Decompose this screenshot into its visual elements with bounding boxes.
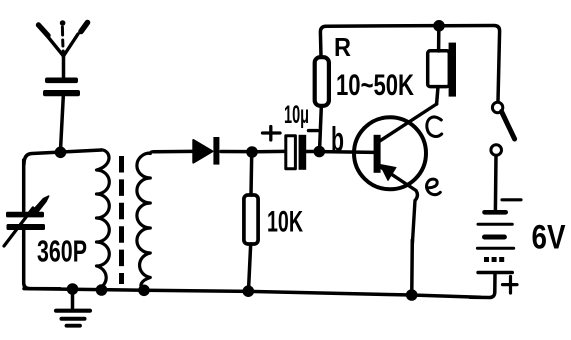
wire secondary top to diode — [154, 150, 193, 154]
svg-text:10K: 10K — [267, 206, 303, 239]
svg-text:6V: 6V — [532, 219, 566, 257]
wire tank left upper — [22, 160, 26, 211]
wire diode to node B — [221, 150, 248, 154]
minus label capacitor C2 — [309, 129, 318, 132]
node C (base node) — [314, 146, 326, 158]
resistor R1 (R 10~50K) — [315, 57, 329, 106]
earphone — [428, 43, 456, 97]
wire earphone to collector — [437, 87, 438, 104]
capacitor C2 10u electrolytic — [286, 135, 306, 170]
wire tank top — [24, 150, 102, 164]
wire resistor R to top rail — [320, 26, 435, 57]
wire node C to base — [323, 150, 374, 154]
wire emitter to bottom rail — [410, 240, 414, 291]
wire node C up to resistor R — [320, 107, 322, 149]
svg-text:360P: 360P — [37, 234, 87, 269]
svg-text:10~50K: 10~50K — [336, 69, 414, 102]
svg-text:10μ: 10μ — [284, 101, 309, 129]
minus label battery — [502, 198, 521, 201]
wire node D down to earphone — [437, 28, 441, 51]
label c — [427, 117, 442, 136]
plus label battery — [503, 277, 518, 294]
variable capacitor VC 360P — [4, 196, 49, 246]
resistor R2 10K — [244, 195, 258, 244]
wire bottom rail — [24, 289, 480, 298]
transformer T1 secondary winding — [137, 152, 154, 290]
wire node B down to resistor 10K — [249, 154, 253, 195]
wire top rail right segment — [443, 26, 500, 102]
capacitor C1 (antenna coupling) — [43, 78, 80, 97]
node primary bottom — [96, 284, 108, 296]
switch S1 — [491, 102, 515, 210]
ground — [56, 289, 90, 326]
wire capacitor C2 to node C — [307, 150, 316, 154]
plus label capacitor C2 — [263, 127, 281, 141]
wire resistor 10K to bottom rail — [249, 244, 251, 288]
transformer T1 core — [119, 156, 124, 284]
diode D1 — [193, 137, 219, 165]
antenna — [39, 20, 88, 77]
transformer T1 primary winding — [97, 150, 110, 290]
wire node B to capacitor C2 — [256, 150, 285, 154]
svg-text:b: b — [331, 121, 344, 159]
node B (detector output) — [246, 146, 258, 158]
transistor Q1 — [354, 104, 437, 245]
node secondary bottom — [138, 285, 150, 297]
node emitter bottom — [406, 289, 418, 301]
svg-text:R: R — [334, 32, 351, 62]
node ground junction — [67, 283, 79, 295]
wire tank left lower — [24, 229, 60, 289]
node A (antenna / tank top junction) — [55, 147, 67, 159]
battery B1 6V — [470, 212, 514, 297]
node 10K bottom — [243, 285, 255, 297]
node D (top rail junction) — [433, 20, 445, 32]
wire antenna cap to tank top — [61, 96, 64, 150]
label e — [427, 179, 441, 195]
